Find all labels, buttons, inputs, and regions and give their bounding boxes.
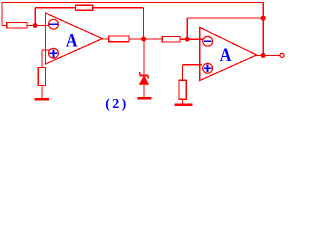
op-amp U2 triangle <box>200 27 257 80</box>
zener diode D1 (cathode up) <box>139 72 148 84</box>
wire: R2 to feedback drop <box>93 7 144 9</box>
wire: input to R1 <box>2 25 8 27</box>
wire: zener anode to ground stub <box>143 84 145 98</box>
wire: op-amp 2 feedback top run <box>187 17 263 19</box>
svg-text:A: A <box>220 45 232 66</box>
wire: feedback drop to op-amp 1 output node <box>143 8 145 39</box>
ground: op-amp 2 non-inverting <box>174 103 192 106</box>
wire: R1 to inverting input junction <box>27 25 49 27</box>
wire: non-inverting branch down to resistor <box>181 65 183 81</box>
wire: feedback riser from inverting input junction <box>34 8 36 26</box>
svg-text:(2): (2) <box>105 97 129 112</box>
wire: drop from output node to zener diode <box>143 39 145 75</box>
wire: op-amp 1 output <box>102 38 109 40</box>
wire: output riser (top rail corner down to output node) <box>262 3 264 56</box>
wire: R5 to op-amp 2 inverting input <box>180 38 203 40</box>
wire: R4 to coupling resistor R5 <box>129 38 163 40</box>
wire: R3 to ground stub <box>41 86 43 98</box>
node: op-amp 1 inverting input junction <box>33 23 38 28</box>
wire: feedback top run to R2 <box>35 7 76 9</box>
op-amp U1 inverting input symbol <box>49 19 59 29</box>
node: output junction <box>261 53 266 58</box>
op-amp U2 non-inverting input symbol <box>203 63 213 73</box>
svg-text:A: A <box>66 31 78 52</box>
resistor R4 (op-amp 1 output series) <box>109 36 129 42</box>
wire: op-amp 2 non-inverting input <box>182 64 202 66</box>
ground: zener return <box>138 97 152 99</box>
wire: non-inverting branch down to resistor <box>41 50 43 68</box>
resistor R2 (op-amp 1 feedback) <box>75 5 92 10</box>
wire: op-amp 2 feedback riser <box>186 18 188 39</box>
wire: op-amp 2 output to terminal <box>257 54 280 56</box>
resistor R1 (op-amp 1 input) <box>7 22 27 28</box>
resistor R5 (coupling to op-amp 2 inverting input) <box>162 37 180 43</box>
node: op-amp 1 output node junction <box>141 37 146 42</box>
op-amp U1 triangle <box>46 13 103 64</box>
wire: top rail (output feedback bus to circuit input) <box>2 2 264 4</box>
wire: R6 to ground stub <box>182 99 184 104</box>
node: feedback tap junction <box>261 16 266 21</box>
node: op-amp 2 inverting input junction <box>185 37 190 42</box>
resistor R6 (op-amp 2 non-inverting to ground) <box>179 80 186 99</box>
resistor R3 (op-amp 1 non-inverting to ground) <box>38 68 45 86</box>
wire: op-amp 1 non-inverting input <box>42 49 50 51</box>
ground: op-amp 1 non-inverting <box>34 98 49 101</box>
op-amp U1 non-inverting input symbol <box>49 48 59 58</box>
op-amp U2 inverting input symbol <box>203 36 213 46</box>
wire: left input branch vertical <box>1 2 3 26</box>
terminal: output (open circle) <box>280 53 284 57</box>
